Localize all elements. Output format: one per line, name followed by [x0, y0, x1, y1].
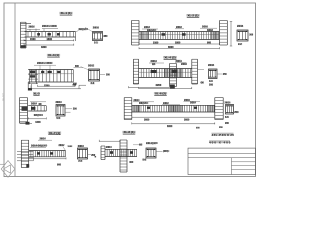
- beam KL-5 dimension line: [28, 118, 46, 120]
- beam KL-6 title label: [154, 92, 167, 94]
- beam KL-7 elevation band with stirrups: [29, 150, 66, 152]
- section 1-1 width dim: [103, 35, 106, 37]
- svg-text:(300): (300): [163, 151, 169, 153]
- beam KL-8 left support ladder: [100, 146, 102, 160]
- svg-text:XL-8 (1): XL-8 (1): [123, 130, 134, 134]
- svg-text:1:20: 1:20: [68, 146, 73, 148]
- beam KL-8 left dot: [95, 156, 97, 157]
- beam KL-2 dimension line: [139, 43, 220, 45]
- section 8-8 right leader and text: [156, 151, 163, 153]
- svg-text:2Φ16: 2Φ16: [181, 63, 188, 66]
- title block right rows: [232, 161, 256, 163]
- svg-text:XL-6 (2): XL-6 (2): [155, 91, 166, 95]
- beam KL-4 dimension line: [139, 87, 192, 89]
- section 2-2 top rebar text: [237, 25, 243, 27]
- section 7-7 left leader text: [68, 145, 73, 147]
- title block row line 2: [188, 157, 256, 159]
- svg-text:Φ8@100: Φ8@100: [34, 114, 44, 117]
- section 6-6 right text: [234, 111, 238, 113]
- beam KL-1 overall dimension: [24, 44, 74, 46]
- svg-text:XL-7 (1): XL-7 (1): [49, 131, 60, 135]
- svg-text:250: 250: [234, 111, 239, 114]
- beam KL-2 band mid line: [139, 34, 220, 36]
- beam KL-3 right top dim: [74, 67, 84, 69]
- beam KL-4 elevation band with stirrups: [139, 68, 192, 70]
- svg-text:3-3: 3-3: [91, 82, 95, 85]
- section 1-1 top rebar text: [93, 26, 99, 28]
- svg-text:2Φ14: 2Φ14: [208, 64, 215, 67]
- beam KL-3 in-band bar marks: [41, 71, 44, 73]
- svg-text:1800: 1800: [175, 41, 181, 44]
- beam KL-4 left column ladder: [132, 59, 134, 84]
- svg-text:2Φ14: 2Φ14: [106, 146, 112, 149]
- beam KL-6 rebar callouts left: [134, 99, 139, 101]
- beam KL-2 title label: [186, 14, 199, 16]
- beam KL-2 elevation band with stirrups: [139, 31, 220, 33]
- beam KL-3 rebar callout: [37, 62, 53, 64]
- beam KL-8 lower text: [129, 161, 133, 163]
- svg-text:2Φ14: 2Φ14: [56, 101, 63, 104]
- beam KL-6 right end dim texts: [196, 127, 200, 129]
- beam KL-1 rebar callout texts: [29, 26, 35, 28]
- svg-text:2Φ14: 2Φ14: [144, 26, 151, 29]
- svg-text:200: 200: [209, 84, 214, 87]
- svg-text:2Φ12: 2Φ12: [59, 144, 66, 147]
- svg-text:6000: 6000: [168, 46, 174, 49]
- section 1-1 bottom label: [94, 41, 98, 43]
- revision diamond mark bottom-left: [0, 161, 15, 178]
- beam KL-7 in-band bar marks: [37, 152, 40, 154]
- svg-text:7-7: 7-7: [78, 160, 82, 163]
- section 5-5 detail square: [56, 105, 65, 117]
- beam KL-1 ladder foot: [21, 45, 26, 48]
- beam KL-5 right end: [45, 106, 47, 111]
- beam KL-3 dim right step: [78, 85, 80, 89]
- beam KL-1 left column ladder: [20, 22, 22, 48]
- section 7-7 right dim: [88, 153, 92, 155]
- beam KL-6 overall dimension: [132, 123, 215, 125]
- beam KL-7 lower leader lines: [17, 151, 33, 153]
- beam KL-6 in-band bar marks: [147, 107, 150, 109]
- title block column divider: [231, 158, 233, 175]
- svg-text:2Φ12 L=4500: 2Φ12 L=4500: [37, 62, 52, 65]
- svg-text:Φ8: Φ8: [201, 81, 205, 84]
- svg-text:XL-2 (1): XL-2 (1): [187, 13, 198, 17]
- svg-text:2Φ16: 2Φ16: [237, 25, 244, 28]
- section 6-6 bottom labels: [225, 116, 229, 118]
- beam KL-2 height dim line: [230, 22, 232, 47]
- section 4-4 bottom labels: [209, 80, 213, 82]
- beam KL-7 end callout: [59, 144, 64, 146]
- beam KL-4 middle column foot: [170, 85, 175, 89]
- beam KL-2 dense stirrups near supports: [139, 32, 141, 40]
- section 4-4 right dim: [217, 73, 222, 75]
- svg-text:1-1: 1-1: [94, 41, 98, 44]
- beam KL-3 right end: [72, 70, 74, 83]
- beam KL-4 rebar callouts left span: [151, 60, 157, 62]
- beam KL-6 upper dim line: [129, 87, 171, 89]
- beam KL-4 rebar callouts right span: [176, 60, 182, 62]
- section 5-5 right dims: [65, 108, 72, 110]
- beam KL-3 band mid line: [28, 73, 73, 75]
- svg-text:2Φ14 Φ8@200: 2Φ14 Φ8@200: [31, 145, 48, 148]
- section 1-1 detail square: [93, 32, 103, 41]
- svg-text:2Φ12: 2Φ12: [176, 26, 183, 29]
- svg-text:2Φ14 L=3400: 2Φ14 L=3400: [42, 25, 57, 28]
- section 3-3 right dim: [100, 74, 106, 76]
- beam KL-5 ladder foot step: [20, 123, 33, 125]
- beam KL-2 left column ladder: [131, 21, 133, 46]
- beam KL-2 overall dimension: [139, 48, 220, 50]
- svg-text:400 X 400: 400 X 400: [209, 141, 231, 145]
- svg-text:XL-1 (1): XL-1 (1): [60, 11, 71, 15]
- beam KL-2 rebar callouts left: [144, 26, 149, 28]
- beam KL-5 left column ladder: [19, 98, 21, 123]
- beam KL-4 middle column ladder: [169, 64, 171, 87]
- svg-text:3000: 3000: [144, 119, 150, 122]
- svg-text:1500: 1500: [30, 38, 36, 41]
- beam KL-2 in-band bar marks: [162, 33, 166, 36]
- svg-text:PLOT: PLOT: [2, 93, 6, 101]
- section 2-2 detail square: [237, 30, 248, 41]
- beam KL-4 right dim stub: [198, 69, 205, 71]
- section 5-5 bottom label: [56, 117, 60, 119]
- beam KL-7 left column ladder: [20, 140, 22, 167]
- beam KL-5 rebar callout: [31, 103, 36, 105]
- beam KL-4 title label: [163, 56, 177, 59]
- svg-text:XL-4 (2): XL-4 (2): [164, 55, 175, 59]
- beam KL-6 rebar callouts right: [184, 99, 189, 101]
- beam KL-5 elevation band with stirrups: [28, 105, 46, 107]
- section 4-4 detail square: [209, 69, 218, 79]
- svg-text:6000: 6000: [167, 125, 173, 128]
- beam KL-8 in-band bar marks: [110, 151, 113, 154]
- svg-text:XL-5: XL-5: [33, 92, 40, 96]
- section 3-3 top rebar text: [88, 64, 94, 66]
- note text line 2: [209, 140, 230, 143]
- svg-text:2Φ16: 2Φ16: [93, 26, 100, 29]
- beam KL-2 right column ladder: [219, 21, 221, 46]
- beam KL-4 band mid line: [139, 71, 192, 73]
- section 8-8 top rebar text: [146, 142, 156, 144]
- beam KL-3 title label: [47, 54, 60, 56]
- svg-text:2Φ12: 2Φ12: [88, 64, 95, 67]
- svg-text:900: 900: [57, 163, 62, 166]
- beam KL-6 mid support marks: [163, 102, 168, 104]
- svg-text:2Φ16: 2Φ16: [202, 25, 209, 28]
- section 1-1 leader: [85, 27, 93, 31]
- beam KL-8 title label: [122, 131, 135, 133]
- section 7-7 bottom label: [78, 160, 82, 162]
- svg-text:1800: 1800: [47, 38, 53, 41]
- beam KL-3 left support column cage: [29, 70, 31, 85]
- svg-text:Φ8@200: Φ8@200: [147, 29, 157, 32]
- beam KL-7 ladder foot: [26, 164, 29, 167]
- svg-text:JZL-PJN 8 25: JZL-PJN 8 25: [212, 133, 235, 137]
- section 6-6 top rebar text: [225, 101, 230, 103]
- beam KL-6 left column ladder: [123, 98, 125, 120]
- beam KL-1 elevation band with stirrups: [25, 31, 76, 33]
- svg-text:1200: 1200: [35, 121, 41, 124]
- title block outer frame: [188, 148, 256, 174]
- title block row line 1: [188, 152, 256, 154]
- beam KL-8 callout right: [139, 144, 142, 146]
- section 3-3 bottom label: [91, 82, 95, 84]
- beam KL-1 end callout: [79, 28, 87, 30]
- beam KL-1 right end line: [75, 32, 77, 42]
- svg-text:3300: 3300: [41, 46, 47, 49]
- beam KL-7 right end: [65, 151, 67, 157]
- svg-text:2Φ16: 2Φ16: [225, 101, 232, 104]
- section 8-8 detail square: [146, 148, 156, 158]
- beam KL-5 in-band bar mark: [31, 107, 35, 110]
- section 3-3 leader: [81, 67, 89, 70]
- svg-text:2-2: 2-2: [238, 43, 242, 46]
- beam KL-4 dense stirrups at middle support: [163, 69, 165, 78]
- section 3-3 detail square: [89, 69, 100, 81]
- svg-text:5-5: 5-5: [56, 117, 60, 120]
- svg-text:4200: 4200: [156, 83, 162, 87]
- beam KL-5 ladder junction blob: [22, 106, 28, 111]
- beam KL-8 middle column ladder: [119, 140, 121, 172]
- beam KL-8 upper dim line: [99, 140, 120, 142]
- beam KL-5 upper dim line: [38, 85, 76, 87]
- beam KL-6 dimension line: [132, 116, 215, 118]
- beam KL-2 rebar callouts right: [202, 26, 207, 28]
- section 8-8 bottom label: [143, 159, 147, 161]
- beam KL-2 rebar callout mid: [176, 26, 181, 28]
- svg-text:2Φ16: 2Φ16: [29, 26, 36, 29]
- section 7-7 top rebar text: [78, 145, 84, 147]
- svg-text:2Φ14: 2Φ14: [78, 145, 85, 148]
- section 2-2 right dim: [249, 34, 253, 36]
- beam KL-1 dimension line: [24, 40, 74, 42]
- beam KL-3 elevation band with stirrups: [28, 69, 73, 71]
- section 2-2 bottom label: [238, 43, 242, 45]
- sheet outer border frame: [4, 3, 256, 177]
- section 4-4 top rebar text: [208, 64, 214, 66]
- beam KL-6 elevation band with stirrups: [132, 104, 215, 106]
- beam KL-7 rebar callout: [31, 145, 46, 147]
- beam KL-4 right column ladder: [191, 59, 193, 84]
- svg-text:900: 900: [207, 41, 212, 44]
- svg-text:3Φ18: 3Φ18: [207, 29, 214, 32]
- beam KL-3 dimension line: [31, 88, 81, 90]
- svg-text:2Φ14: 2Φ14: [190, 101, 197, 104]
- svg-text:Φ8@200: Φ8@200: [139, 102, 149, 105]
- svg-text:XL-3 (1): XL-3 (1): [48, 53, 59, 57]
- beam KL-1 column cap line: [21, 23, 32, 25]
- beam KL-4 in-band bar marks: [151, 70, 157, 73]
- beam KL-5 title label: [33, 92, 40, 94]
- beam KL-5 lower text: [34, 114, 42, 116]
- beam KL-8 callout above: [106, 146, 111, 148]
- svg-text:2Φ14: 2Φ14: [40, 137, 47, 140]
- section 5-5 top rebar text: [56, 101, 62, 103]
- svg-text:2Φ14: 2Φ14: [31, 102, 38, 105]
- beam KL-7 dimension line: [29, 158, 66, 160]
- note text line 1: [212, 133, 234, 136]
- beam KL-6 right column ladder: [214, 98, 216, 120]
- svg-text:2Φ14@200: 2Φ14@200: [146, 142, 159, 145]
- beam KL-3 column continuation below: [27, 82, 29, 91]
- section 6-6 detail square: [226, 105, 234, 115]
- beam KL-8 elevation band with stirrups: [105, 148, 137, 150]
- svg-text:2100: 2100: [153, 42, 159, 45]
- sheet background: [0, 0, 261, 180]
- section 7-7 detail square: [78, 148, 88, 159]
- beam KL-7 title label: [48, 131, 61, 133]
- beam KL-7 upper callout: [40, 137, 46, 139]
- beam KL-1 in-band bar marks: [37, 33, 40, 35]
- beam KL-4 right lower callout: [201, 81, 204, 83]
- binding margin line: [14, 3, 16, 177]
- svg-text:3000: 3000: [184, 119, 190, 122]
- beam KL-1 title label: [59, 12, 72, 14]
- beam KL-6 dense stirrups mid support: [168, 105, 170, 112]
